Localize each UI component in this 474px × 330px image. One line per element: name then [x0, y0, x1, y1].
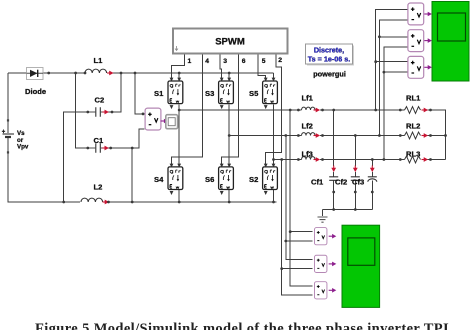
capacitor C1 — [88, 136, 109, 153]
wire node n1 drop to C2 right — [108, 73, 121, 112]
ground — [318, 217, 328, 222]
wire phase row 3 to Lf3 — [274, 159, 302, 161]
diode D — [25, 68, 46, 97]
svg-text:Cf1: Cf1 — [311, 178, 324, 187]
resistor RL2 — [405, 122, 429, 139]
voltmeter U-dc — [145, 108, 168, 130]
wire inverter V tap n1 — [290, 110, 313, 286]
figure caption — [35, 322, 474, 330]
scope inverter — [342, 225, 380, 307]
svg-text:L1: L1 — [94, 56, 104, 65]
capacitor Cf1 — [311, 166, 338, 187]
inductor L2 — [81, 183, 109, 205]
wire Cf1 tap — [333, 110, 335, 210]
wire DC- rail L2 to S2 emitter — [104, 201, 277, 203]
voltmeter V4 inverter — [314, 228, 326, 245]
wire C2 row left leg — [64, 112, 88, 202]
wire gate 5 — [258, 54, 266, 80]
wire phase row 2 RL2 to star point — [428, 135, 446, 137]
svg-text:Cf2: Cf2 — [335, 178, 347, 187]
wire phase row 2 Lf2 to RL2 — [320, 135, 405, 137]
wire gate 6 — [222, 54, 239, 166]
wire inverter V tap n3 — [282, 160, 313, 296]
transistor S1 — [154, 78, 183, 110]
capacitor Cf2 — [335, 166, 360, 187]
svg-text:L2: L2 — [94, 183, 103, 192]
voltmeter V1 load — [408, 3, 424, 25]
svg-text:2: 2 — [278, 57, 282, 64]
svg-text:Cf3: Cf3 — [352, 178, 364, 187]
transistor S5 — [249, 78, 277, 110]
svg-text:S2: S2 — [249, 175, 258, 184]
svg-text:S5: S5 — [249, 89, 259, 98]
voltmeter V5 inverter — [314, 255, 326, 272]
svg-text:S3: S3 — [205, 89, 214, 98]
wire DC-link V+ tap — [135, 73, 145, 114]
junction dots on C1/C2 rows — [86, 111, 144, 150]
wire DC+ rail L1 to S5 collector — [109, 72, 274, 74]
wire Cf2 tap — [354, 136, 356, 210]
svg-text:RL2: RL2 — [406, 122, 420, 131]
wire S3 collector — [228, 73, 230, 80]
wire phase row 3 RL3 to star point — [428, 159, 446, 161]
wire phase B leg S3-S6 — [228, 104, 230, 166]
svg-text:RL1: RL1 — [406, 94, 421, 103]
wire inverter V tap n2 — [286, 136, 313, 260]
wire Cf3 tap — [371, 160, 373, 210]
junction dots on voltmeter taps — [280, 35, 385, 270]
wire gate 3 — [220, 54, 222, 80]
scope inverter arrows — [329, 234, 337, 293]
wire gate 2 — [266, 54, 282, 166]
svg-text:6: 6 — [242, 58, 246, 65]
svg-text:1: 1 — [188, 58, 192, 65]
junction dots on phase row C — [272, 158, 432, 161]
wire phase row 1 RL1 to star point — [428, 110, 446, 160]
wire gate 1 — [172, 54, 185, 80]
wire phase row 1 to Lf1 — [179, 109, 301, 111]
svg-text:Diode: Diode — [25, 87, 46, 96]
wire phase row 1 Lf1 to RL1 — [320, 109, 405, 111]
scope load — [432, 2, 469, 82]
wire S6 emitter — [228, 190, 230, 202]
svg-text:Vpv: Vpv — [17, 144, 29, 151]
wire DC- rail source to L2 — [8, 137, 80, 202]
junction dots on Cf capacitor legs — [332, 191, 373, 211]
SPWM block — [173, 29, 288, 54]
inductor L1 — [85, 56, 114, 75]
voltmeter V6 inverter — [314, 282, 326, 299]
junction dots on DC- rail — [62, 201, 275, 204]
transistor S3 — [205, 78, 233, 110]
capacitor C2 — [88, 96, 109, 117]
wire Cf bus to ground — [323, 210, 373, 217]
transistor S2 — [249, 164, 277, 195]
wire diode-node drop to C1 row — [76, 73, 88, 148]
scope load arrows — [424, 12, 432, 70]
svg-text:5: 5 — [262, 58, 266, 65]
capacitor Cf3 — [352, 166, 377, 187]
junction dots on phase row B — [228, 134, 447, 137]
svg-text:Lf2: Lf2 — [302, 122, 313, 131]
wire phase A leg S1-S4 — [178, 104, 180, 166]
powergui block — [306, 44, 355, 79]
junction dots on phase row A — [178, 109, 432, 112]
transistor S4 — [154, 164, 183, 195]
svg-text:S1: S1 — [154, 89, 164, 98]
wire phase C leg S5-S2 — [273, 104, 275, 166]
svg-text:+: + — [2, 130, 6, 136]
wire S2 emitter — [273, 190, 275, 202]
wire DC+ rail left (source to diode) — [8, 73, 27, 133]
wire S1 collector — [178, 73, 180, 80]
inductor Lf3 — [302, 150, 321, 162]
wire load V tap C — [384, 47, 407, 160]
svg-text:Discrete,: Discrete, — [314, 45, 344, 54]
voltmeter V3 load — [408, 56, 424, 78]
wire phase row 3 Lf3 to RL3 — [320, 159, 405, 161]
transistor S6 — [205, 164, 233, 195]
inductor Lf2 — [302, 122, 321, 138]
svg-text:powergui: powergui — [313, 70, 346, 79]
wire DC+ rail diode to L1 — [43, 72, 85, 74]
svg-text:C1: C1 — [94, 136, 104, 145]
svg-text:C2: C2 — [95, 96, 105, 105]
svg-text:Lf1: Lf1 — [302, 94, 314, 103]
wire load V tap A — [376, 10, 408, 111]
wire load V tap B — [379, 20, 407, 136]
display block — [166, 115, 178, 129]
inductor Lf1 — [302, 94, 321, 113]
svg-text:4: 4 — [205, 58, 209, 65]
wire C1 row right to V- and L2 tap — [108, 129, 145, 202]
resistor RL3 — [405, 150, 429, 163]
wire phase row 2 to Lf2 — [229, 135, 301, 137]
svg-text:Ts = 1e-06 s.: Ts = 1e-06 s. — [308, 54, 350, 63]
svg-text:3: 3 — [223, 58, 227, 65]
svg-text:SPWM: SPWM — [215, 37, 245, 48]
svg-text:S6: S6 — [205, 175, 214, 184]
junction dots on DC+ rail — [47, 72, 230, 75]
wire S5 collector — [273, 73, 275, 80]
resistor RL1 — [405, 94, 429, 114]
voltmeter V2 load — [408, 30, 424, 52]
DC source Vs/Vpv — [2, 119, 29, 153]
wire S4 emitter — [178, 190, 180, 202]
wire gate 4 — [172, 54, 203, 166]
svg-text:S4: S4 — [154, 175, 164, 184]
